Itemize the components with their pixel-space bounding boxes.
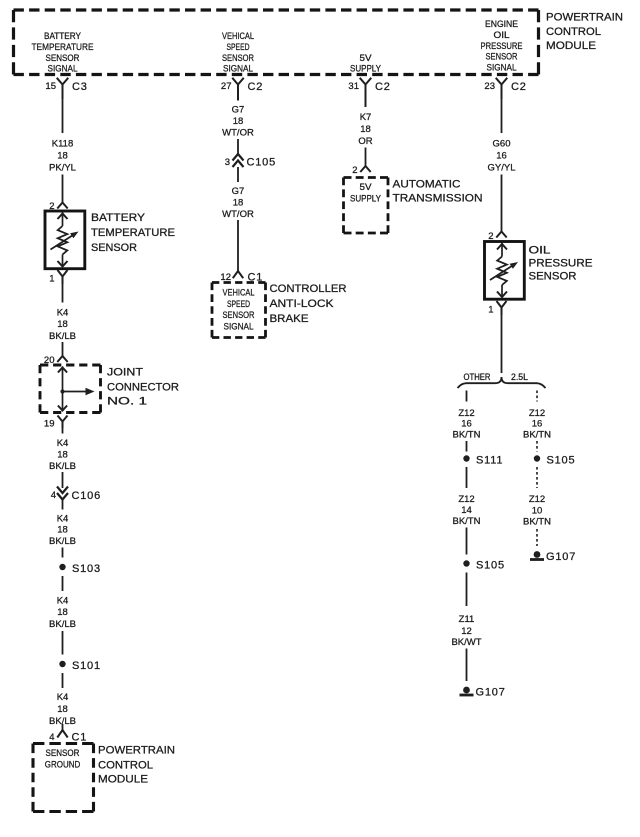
svg-text:19: 19 <box>44 418 55 429</box>
svg-text:S103: S103 <box>72 563 101 575</box>
svg-text:TEMPERATURE: TEMPERATURE <box>32 42 94 52</box>
svg-text:4: 4 <box>49 732 54 743</box>
svg-text:TEMPERATURE: TEMPERATURE <box>91 227 175 239</box>
wire Z12 left segment d <box>466 528 468 555</box>
svg-text:GY/YL: GY/YL <box>488 162 516 173</box>
oil pressure sensor internal lead bottom <box>501 285 503 298</box>
svg-text:K118: K118 <box>52 138 73 149</box>
wire K4 segment c <box>62 428 64 434</box>
svg-text:16: 16 <box>532 419 543 430</box>
wire G60 upper segment <box>501 99 503 133</box>
svg-text:10: 10 <box>532 505 543 516</box>
svg-text:27: 27 <box>221 81 232 92</box>
splice S103 <box>59 564 65 570</box>
svg-text:CONTROL: CONTROL <box>98 759 153 771</box>
svg-text:BATTERY: BATTERY <box>44 31 81 41</box>
svg-text:OTHER: OTHER <box>464 372 491 383</box>
svg-text:K4: K4 <box>57 438 69 449</box>
svg-text:WT/OR: WT/OR <box>222 209 254 220</box>
svg-text:18: 18 <box>57 449 68 460</box>
wire Z12 right segment d <box>536 529 538 546</box>
svg-text:3: 3 <box>225 157 230 168</box>
svg-text:SUPPLY: SUPPLY <box>350 64 381 74</box>
wire K7 lower segment <box>365 148 367 167</box>
svg-text:MODULE: MODULE <box>98 773 148 785</box>
svg-text:SPEED: SPEED <box>227 42 250 52</box>
svg-text:S105: S105 <box>476 560 505 572</box>
svg-text:VEHICAL: VEHICAL <box>222 31 254 41</box>
svg-text:23: 23 <box>484 81 495 92</box>
svg-text:Z12: Z12 <box>529 494 545 505</box>
splice S101 <box>59 661 65 667</box>
svg-text:G107: G107 <box>546 551 576 563</box>
svg-text:SENSOR: SENSOR <box>46 53 80 63</box>
svg-text:5V: 5V <box>360 53 372 63</box>
svg-text:31: 31 <box>348 81 359 92</box>
svg-text:C105: C105 <box>247 156 277 168</box>
svg-text:CONNECTOR: CONNECTOR <box>107 381 179 393</box>
battery temperature sensor internal lead bottom <box>62 255 64 268</box>
svg-text:BK/TN: BK/TN <box>523 517 551 528</box>
wire K4 segment d <box>62 472 64 488</box>
svg-text:BK/TN: BK/TN <box>453 429 481 440</box>
wire Z11 segment a <box>466 573 468 607</box>
joint connector internal branch arrow <box>63 391 87 393</box>
svg-text:2.5L: 2.5L <box>511 372 528 383</box>
wire K4 segment i <box>62 673 64 688</box>
oil pressure sensor internal lead top <box>501 243 503 257</box>
svg-text:G7: G7 <box>232 186 245 197</box>
connector C1 pin 12 (CAB) <box>233 271 243 278</box>
svg-text:SENSOR: SENSOR <box>222 53 254 63</box>
oil pressure sensor pin 2 <box>496 232 506 238</box>
svg-text:16: 16 <box>461 419 472 430</box>
svg-text:OIL: OIL <box>494 30 510 40</box>
svg-text:14: 14 <box>461 505 472 516</box>
wire K4 segment b <box>62 342 64 356</box>
svg-text:SPEED: SPEED <box>227 299 250 309</box>
svg-text:SIGNAL: SIGNAL <box>48 64 78 74</box>
svg-text:ENGINE: ENGINE <box>485 19 518 29</box>
svg-text:S105: S105 <box>547 454 576 466</box>
svg-text:OIL: OIL <box>529 244 551 256</box>
oil pressure sensor pin 1 <box>497 301 507 315</box>
svg-text:AUTOMATIC: AUTOMATIC <box>393 179 461 191</box>
controller anti-lock brake box (dashed) <box>212 281 266 284</box>
wire Z12 right segment b <box>536 441 538 452</box>
svg-text:18: 18 <box>57 525 68 536</box>
svg-text:NO. 1: NO. 1 <box>107 395 147 407</box>
svg-text:SIGNAL: SIGNAL <box>224 322 254 332</box>
svg-text:POWERTRAIN: POWERTRAIN <box>98 745 175 757</box>
svg-text:TRANSMISSION: TRANSMISSION <box>393 193 483 205</box>
svg-text:Z11: Z11 <box>459 614 475 625</box>
wire G60 lower segment <box>501 175 503 232</box>
svg-text:C106: C106 <box>72 490 102 502</box>
wire K4 segment e <box>62 500 64 510</box>
wire Z12 right segment c <box>536 467 538 488</box>
joint connector internal junction dot <box>60 389 64 393</box>
svg-text:POWERTRAIN: POWERTRAIN <box>546 11 623 23</box>
svg-text:5V: 5V <box>360 182 372 192</box>
svg-text:K4: K4 <box>57 513 69 524</box>
thermistor RT1 (battery temperature sensor element) <box>58 226 68 255</box>
svg-text:18: 18 <box>233 197 244 208</box>
wire G7 lower segment <box>237 167 239 182</box>
svg-text:VEHICAL: VEHICAL <box>223 287 255 297</box>
svg-text:SENSOR: SENSOR <box>91 242 137 254</box>
wire K118 upper segment <box>62 99 64 133</box>
wire Z12 left segment b <box>466 441 468 452</box>
svg-text:4: 4 <box>51 490 56 501</box>
svg-text:G107: G107 <box>476 687 506 699</box>
svg-text:SENSOR: SENSOR <box>529 270 577 282</box>
svg-text:JOINT: JOINT <box>107 366 143 378</box>
svg-text:18: 18 <box>233 116 244 127</box>
wire K4 segment a <box>62 284 64 303</box>
svg-text:G7: G7 <box>232 104 245 115</box>
svg-text:ANTI-LOCK: ANTI-LOCK <box>270 298 335 310</box>
ground G107 (right) <box>534 551 541 558</box>
svg-text:1: 1 <box>49 273 54 284</box>
wire K4 segment g <box>62 576 64 591</box>
battery temperature sensor pin 2 <box>57 203 67 209</box>
svg-text:MODULE: MODULE <box>546 40 596 52</box>
svg-text:16: 16 <box>496 150 507 161</box>
svg-text:C2: C2 <box>375 81 391 93</box>
joint connector pin 19 <box>58 416 68 429</box>
connector C106 pin 4 <box>57 487 68 494</box>
wire G60 bottom segment <box>501 315 503 373</box>
svg-text:K4: K4 <box>57 307 69 318</box>
connector pin 2 (automatic transmission) <box>360 166 370 172</box>
svg-text:CONTROLLER: CONTROLLER <box>270 283 347 295</box>
svg-text:BK/LB: BK/LB <box>49 619 76 630</box>
svg-text:18: 18 <box>57 607 68 618</box>
wire Z12 left segment c <box>466 467 468 488</box>
joint connector internal wire <box>62 367 64 412</box>
svg-text:G60: G60 <box>493 138 511 149</box>
splice S111 <box>463 455 469 461</box>
connector C105 pin 3 <box>233 154 244 161</box>
svg-text:18: 18 <box>57 319 68 330</box>
svg-text:C1: C1 <box>72 732 88 744</box>
connector C2 pin 27 <box>232 78 244 101</box>
svg-text:C2: C2 <box>511 81 527 93</box>
wire Z12 right segment a (2.5L) <box>536 391 538 402</box>
svg-text:C3: C3 <box>72 81 88 93</box>
svg-text:BK/LB: BK/LB <box>49 331 76 342</box>
svg-text:15: 15 <box>45 81 56 92</box>
battery temperature sensor pin 1 <box>58 270 68 284</box>
wire K4 segment f <box>62 548 64 558</box>
svg-text:BATTERY: BATTERY <box>91 212 146 224</box>
svg-text:K4: K4 <box>57 692 69 703</box>
svg-text:S101: S101 <box>72 660 101 672</box>
svg-text:C2: C2 <box>248 81 264 93</box>
svg-text:BK/LB: BK/LB <box>49 536 76 547</box>
svg-text:K4: K4 <box>57 595 69 606</box>
svg-text:PRESSURE: PRESSURE <box>529 257 593 269</box>
variable resistor (oil pressure sensor element) <box>497 257 507 286</box>
connector C3 pin 15 <box>57 78 69 99</box>
svg-text:SIGNAL: SIGNAL <box>487 63 517 73</box>
joint connector no.1 box (dashed) <box>40 364 101 367</box>
splice S105 (left) <box>463 560 469 566</box>
branch brace OTHER / 2.5L <box>458 377 546 388</box>
svg-text:PK/YL: PK/YL <box>49 162 76 173</box>
automatic transmission box (dashed) <box>344 176 389 179</box>
svg-text:GROUND: GROUND <box>45 760 81 770</box>
svg-text:SENSOR: SENSOR <box>223 310 255 320</box>
wire G7 mid segment <box>237 139 239 154</box>
connector C2 pin 23 <box>496 78 508 99</box>
svg-text:1: 1 <box>488 304 493 315</box>
svg-text:K7: K7 <box>360 112 372 123</box>
PCM module box (dashed) <box>14 8 539 11</box>
svg-text:OR: OR <box>358 136 372 147</box>
connector C1 pin 4 (sensor ground) <box>62 724 64 730</box>
svg-text:BK/LB: BK/LB <box>49 461 76 472</box>
connector C2 pin 31 <box>360 78 372 107</box>
svg-text:18: 18 <box>57 704 68 715</box>
wire K4 segment h <box>62 631 64 655</box>
svg-text:SIGNAL: SIGNAL <box>223 64 253 74</box>
svg-text:PRESSURE: PRESSURE <box>481 41 523 51</box>
svg-text:SENSOR: SENSOR <box>46 748 80 758</box>
svg-text:WT/OR: WT/OR <box>222 128 254 139</box>
wire K118 lower segment <box>62 175 64 203</box>
svg-text:BRAKE: BRAKE <box>270 313 309 325</box>
svg-text:BK/WT: BK/WT <box>451 637 481 648</box>
svg-text:BK/TN: BK/TN <box>523 429 551 440</box>
svg-text:S111: S111 <box>476 454 503 466</box>
oil pressure sensor box <box>485 242 525 300</box>
svg-text:BK/TN: BK/TN <box>453 516 481 527</box>
svg-text:Z12: Z12 <box>458 408 474 419</box>
svg-text:CONTROL: CONTROL <box>546 26 601 38</box>
svg-text:Z12: Z12 <box>529 408 545 419</box>
battery temperature sensor internal lead top <box>62 213 64 227</box>
svg-text:Z12: Z12 <box>458 494 474 505</box>
wire G7 bottom segment <box>237 220 239 271</box>
ground G107 (left) <box>463 687 470 694</box>
svg-text:18: 18 <box>360 124 371 135</box>
svg-text:18: 18 <box>57 150 68 161</box>
svg-text:12: 12 <box>461 626 472 637</box>
wire Z12 left segment a <box>466 391 468 402</box>
svg-text:SUPPLY: SUPPLY <box>350 194 381 204</box>
splice S105 (right) <box>534 455 540 461</box>
svg-text:2: 2 <box>352 165 357 176</box>
PCM sensor ground box (dashed) <box>33 742 94 745</box>
wire Z11 segment b <box>466 649 468 682</box>
joint connector pin 20 <box>57 356 67 362</box>
svg-text:SENSOR: SENSOR <box>486 52 518 62</box>
battery temperature sensor box <box>45 211 85 269</box>
